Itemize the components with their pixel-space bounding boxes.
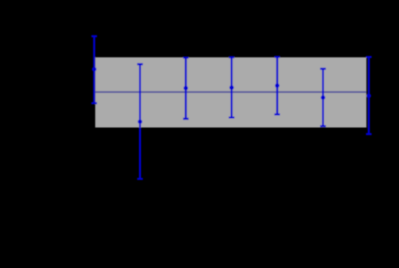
error bar 6 vertical <box>322 69 324 126</box>
data point 7 <box>367 94 371 98</box>
data point 4 <box>229 85 233 89</box>
error bar 3 bottom cap <box>183 118 189 120</box>
error bar 6 bottom cap <box>320 125 326 127</box>
error bar 2 vertical <box>139 64 141 179</box>
data point 1 <box>92 67 96 71</box>
data point 3 <box>184 86 188 90</box>
error bar 1 top cap <box>91 35 97 37</box>
center line (axhline navy) <box>95 91 366 93</box>
error bar 7 top cap <box>366 56 372 58</box>
data point 2 <box>138 120 142 124</box>
error bar 1 vertical <box>93 36 95 103</box>
error bar 1 bottom cap <box>91 102 97 104</box>
error bar 6 top cap <box>320 68 326 70</box>
error bar 3 vertical <box>185 58 187 119</box>
error bar 4 top cap <box>229 56 235 58</box>
data point 5 <box>275 83 279 87</box>
error bar 5 bottom cap <box>274 113 280 115</box>
error bar 3 top cap <box>183 57 189 59</box>
error bar 5 top cap <box>274 56 280 58</box>
data point 6 <box>321 95 325 99</box>
error bar 4 vertical <box>231 57 233 117</box>
error bar 4 bottom cap <box>229 117 235 119</box>
error bar 5 vertical <box>276 57 278 115</box>
error bar 7 bottom cap <box>366 133 372 135</box>
error bar 7 vertical <box>368 57 370 134</box>
error bar 2 top cap <box>137 63 143 65</box>
error bar 2 bottom cap <box>137 178 143 180</box>
gray band (axhspan) <box>95 57 366 127</box>
